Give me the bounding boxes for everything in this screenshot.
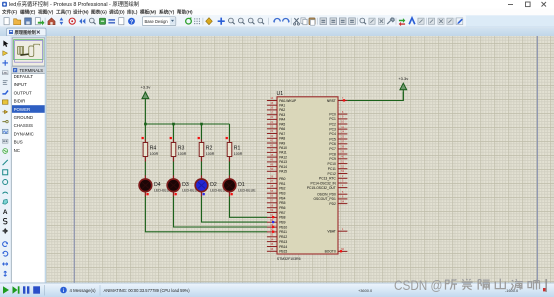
svg-text:设计(N): 设计(N) — [73, 9, 89, 16]
svg-text:D2: D2 — [210, 182, 217, 188]
svg-text:PA11: PA11 — [279, 151, 287, 155]
sheet dropdown Base Design — [142, 17, 175, 26]
wire D2 to MCU port pin — [202, 196, 268, 222]
junction at R4 branch — [144, 123, 147, 126]
wire rail to R4 — [144, 124, 146, 140]
state dot BOOT0 — [340, 250, 342, 252]
state dot NRST (high) — [343, 99, 345, 101]
svg-text:-1600.0: -1600.0 — [505, 288, 519, 293]
app icon — [2, 2, 7, 7]
svg-text:PC14-OSC32_IN: PC14-OSC32_IN — [311, 181, 337, 185]
splitter — [45, 36, 46, 283]
svg-text:TERMINALS: TERMINALS — [20, 68, 44, 73]
state dot PB8 (high) — [272, 216, 274, 218]
U1 left pins PA0-PA15 — [267, 96, 297, 173]
svg-text:PA8: PA8 — [279, 137, 285, 141]
toolbar icons — [4, 17, 463, 26]
title bar — [0, 0, 554, 9]
svg-text:ANIMATING: 00:00:33.577789 (CP: ANIMATING: 00:00:33.577789 (CPU load 59%… — [104, 288, 191, 293]
svg-text:BIDIR: BIDIR — [14, 99, 26, 104]
wire D1 to MCU port pin — [230, 196, 268, 217]
toolbar — [0, 15, 554, 27]
svg-text:PC7: PC7 — [329, 147, 336, 151]
svg-text:Base Design: Base Design — [145, 19, 169, 24]
svg-text:POWER: POWER — [14, 107, 31, 112]
U1 right pins — [307, 96, 348, 254]
svg-text:PA9: PA9 — [279, 141, 285, 145]
svg-text:PC4: PC4 — [329, 132, 336, 136]
svg-text:OUTPUT: OUTPUT — [14, 90, 32, 95]
svg-text:PC8: PC8 — [329, 152, 336, 156]
svg-text:库(L): 库(L) — [127, 9, 138, 16]
svg-text:PA0-WKUP: PA0-WKUP — [279, 99, 297, 103]
caret — [546, 279, 547, 292]
preview pane — [12, 38, 44, 66]
svg-text:100R: 100R — [150, 152, 159, 156]
svg-text:NC: NC — [14, 148, 20, 153]
svg-text:BUS: BUS — [14, 140, 23, 145]
svg-text:100R: 100R — [178, 152, 187, 156]
svg-text:4 Message(s): 4 Message(s) — [70, 288, 97, 293]
sheet border left — [73, 36, 75, 283]
svg-text:STM32F103R6: STM32F103R6 — [277, 257, 301, 261]
message icon — [60, 287, 67, 294]
svg-text:A: A — [3, 209, 8, 216]
wire R1 to D1 — [229, 162, 231, 176]
svg-text:PB5: PB5 — [279, 201, 285, 205]
object selector panel — [11, 36, 46, 283]
state dot D2 bottom — [203, 193, 205, 195]
svg-text:PA14: PA14 — [279, 165, 287, 169]
svg-text:R3: R3 — [178, 145, 185, 151]
step button — [13, 286, 18, 293]
svg-text:PC13_RTC: PC13_RTC — [319, 177, 336, 181]
svg-text:PB14: PB14 — [279, 245, 287, 249]
stop button — [33, 286, 40, 293]
menu bar — [0, 9, 554, 16]
CSDN watermark — [394, 278, 540, 293]
svg-text:PC15-OSC32_OUT: PC15-OSC32_OUT — [307, 186, 336, 190]
svg-text:led点亮循环控制 - Proteus 8 Professi: led点亮循环控制 - Proteus 8 Professional - 原理图… — [9, 0, 139, 8]
wire D3 to MCU port pin — [174, 196, 268, 227]
state dot R1 top (logic high) — [226, 137, 228, 139]
schematic canvas background — [46, 36, 554, 283]
svg-text:图表(G): 图表(G) — [91, 9, 107, 16]
state dot D4 bottom — [146, 193, 148, 195]
svg-text:DEFAULT: DEFAULT — [14, 74, 34, 79]
window buttons — [508, 2, 546, 7]
svg-text:模板(M): 模板(M) — [140, 9, 157, 16]
svg-text:INPUT: INPUT — [14, 82, 27, 87]
svg-text:PC5: PC5 — [329, 137, 336, 141]
svg-text:PB8: PB8 — [279, 216, 285, 220]
svg-text:+3600.0: +3600.0 — [358, 288, 373, 293]
svg-text:PB7: PB7 — [279, 211, 285, 215]
wire R3 to D3 — [173, 162, 175, 176]
TERMINALS header — [12, 67, 46, 74]
microcontroller U1 STM32F103R6 — [277, 91, 339, 261]
sheet border right — [536, 36, 538, 283]
svg-text:GROUND: GROUND — [14, 115, 34, 120]
junction at R2 branch — [200, 123, 203, 126]
tab bar — [0, 27, 554, 36]
wire R2 to D2 — [201, 162, 203, 176]
svg-text:帮助(H): 帮助(H) — [177, 9, 193, 16]
svg-text:PA15: PA15 — [279, 170, 287, 174]
svg-text:原理图绘制: 原理图绘制 — [15, 29, 37, 36]
power terminal +3.3v (left) — [140, 85, 150, 124]
svg-text:PC6: PC6 — [329, 142, 336, 146]
svg-text:PB12: PB12 — [279, 235, 287, 239]
svg-text:PC3: PC3 — [329, 127, 336, 131]
svg-text:CHASSIS: CHASSIS — [14, 123, 33, 128]
svg-text:PA4: PA4 — [279, 118, 285, 122]
svg-text:PD2: PD2 — [329, 202, 336, 206]
svg-text:PC10: PC10 — [328, 162, 336, 166]
wire NRST to +3.3v — [347, 92, 403, 101]
svg-text:NRST: NRST — [327, 99, 336, 103]
svg-text:PB10: PB10 — [279, 225, 287, 229]
LED D4 LED-BLUE — [139, 175, 172, 196]
svg-text:PC9: PC9 — [329, 157, 336, 161]
svg-text:PA3: PA3 — [279, 113, 285, 117]
wire power rail — [145, 123, 229, 125]
preview sketch — [18, 44, 40, 56]
svg-text:D3: D3 — [182, 182, 189, 188]
svg-text:系统(Y): 系统(Y) — [159, 9, 175, 16]
state dot PB9 (low) — [272, 221, 274, 223]
state dot D1 bottom — [231, 193, 233, 195]
U1 left pins PB0-PB15 — [267, 174, 288, 253]
svg-text:OSCOUT_PD1: OSCOUT_PD1 — [313, 197, 336, 201]
svg-text:DYNAMIC: DYNAMIC — [14, 131, 34, 136]
state dot PB11 (high) — [272, 231, 274, 233]
active tab — [7, 28, 47, 36]
wire R4 to D4 — [144, 162, 146, 176]
LED D3 LED-BLUE — [167, 175, 200, 196]
resistor R3 100R — [171, 139, 187, 161]
state dot D3 bottom — [175, 193, 177, 195]
svg-text:PB13: PB13 — [279, 240, 287, 244]
svg-text:?: ? — [130, 19, 133, 25]
wire rail to R2 — [201, 124, 203, 140]
svg-text:100R: 100R — [206, 152, 215, 156]
svg-text:工具(T): 工具(T) — [56, 9, 72, 16]
svg-text:PA5: PA5 — [279, 122, 285, 126]
svg-text:调试(D): 调试(D) — [109, 9, 125, 16]
svg-text:LED-BLUE: LED-BLUE — [238, 188, 256, 192]
state dot R4 top (logic high) — [142, 137, 144, 139]
wire rail to R1 — [229, 124, 231, 140]
svg-text:PA10: PA10 — [279, 146, 287, 150]
svg-text:R1: R1 — [234, 145, 241, 151]
svg-text:PC1: PC1 — [329, 117, 336, 121]
wire rail to R3 — [173, 124, 175, 140]
state dot R2 top (logic high) — [198, 137, 200, 139]
svg-text:LBL: LBL — [3, 71, 9, 75]
svg-text:PB0: PB0 — [279, 177, 285, 181]
play button — [3, 286, 9, 293]
terminals list — [12, 74, 46, 283]
power terminal +3.3v (right) — [398, 76, 408, 101]
state dot PB10 (high) — [272, 226, 274, 228]
svg-text:U1: U1 — [277, 91, 284, 97]
LED D2 LED-BLUE — [195, 175, 228, 196]
left mode toolbar — [0, 36, 11, 283]
svg-text:+3.3v: +3.3v — [140, 85, 150, 90]
svg-text:PB3: PB3 — [279, 192, 285, 196]
svg-text:D1: D1 — [238, 182, 245, 188]
svg-text:PB2: PB2 — [279, 187, 285, 191]
svg-text:R4: R4 — [150, 145, 157, 151]
state dot R3 top (logic high) — [170, 137, 172, 139]
svg-text:OSCIN_PD0: OSCIN_PD0 — [317, 193, 336, 197]
svg-text:R2: R2 — [206, 145, 213, 151]
svg-text:PB6: PB6 — [279, 206, 285, 210]
status bar — [0, 283, 554, 297]
svg-text:CSDN @: CSDN @ — [394, 278, 443, 293]
svg-text:PA7: PA7 — [279, 132, 285, 136]
svg-text:PC12: PC12 — [328, 172, 336, 176]
resistor R4 100R — [143, 139, 159, 161]
svg-text:视图(V): 视图(V) — [38, 9, 54, 16]
svg-text:PB1: PB1 — [279, 182, 285, 186]
resistor R2 100R — [199, 139, 215, 161]
svg-text:PA12: PA12 — [279, 155, 287, 159]
svg-text:D4: D4 — [154, 182, 161, 188]
svg-text:PC11: PC11 — [328, 167, 336, 171]
svg-text:编辑(E): 编辑(E) — [20, 9, 36, 16]
svg-text:100R: 100R — [234, 152, 243, 156]
svg-text:PA6: PA6 — [279, 127, 285, 131]
svg-text:PA13: PA13 — [279, 160, 287, 164]
svg-text:文件(F): 文件(F) — [2, 9, 18, 16]
svg-text:PA1: PA1 — [279, 104, 285, 108]
svg-text:PB4: PB4 — [279, 196, 285, 200]
svg-text:PB9: PB9 — [279, 221, 285, 225]
resistor R1 100R — [227, 139, 243, 161]
wire D4 to MCU port pin — [145, 196, 267, 231]
svg-text:PB15: PB15 — [279, 250, 287, 254]
pause button — [23, 286, 25, 293]
svg-text:PC2: PC2 — [329, 122, 336, 126]
svg-text:i: i — [63, 288, 64, 293]
junction at R3 branch — [172, 123, 175, 126]
svg-text:PB11: PB11 — [279, 230, 287, 234]
svg-text:BOOT0: BOOT0 — [325, 250, 336, 254]
LED D1 LED-BLUE — [223, 175, 256, 196]
svg-text:VBAT: VBAT — [327, 230, 335, 234]
svg-text:PA2: PA2 — [279, 108, 285, 112]
svg-text:+3.3v: +3.3v — [398, 76, 408, 81]
svg-text:PC0: PC0 — [329, 112, 336, 116]
